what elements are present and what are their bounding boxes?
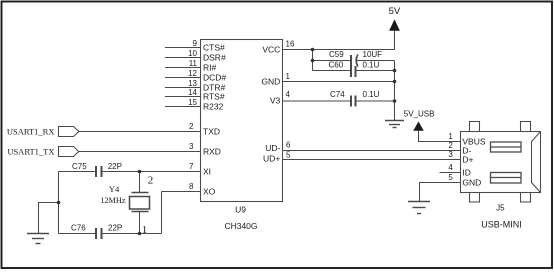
junction gnd rail pin1 xyxy=(393,80,397,84)
power 5V arrow xyxy=(389,19,400,31)
wire USART1_TX to RXD pin 3 xyxy=(79,151,201,153)
wire UD- pin 6 to USB D- xyxy=(283,150,461,152)
capacitor C60 plates xyxy=(350,66,352,77)
wire VCC pin 16 xyxy=(283,49,395,51)
svg-text:14: 14 xyxy=(188,88,197,97)
svg-text:ID: ID xyxy=(462,168,471,178)
svg-text:2: 2 xyxy=(148,175,154,187)
svg-text:12MHz: 12MHz xyxy=(100,196,126,205)
tag USART1_RX flag xyxy=(59,127,79,137)
svg-text:R232: R232 xyxy=(203,102,224,112)
ground symbol left xyxy=(27,233,49,235)
svg-text:13: 13 xyxy=(188,79,197,88)
node XI / C75 row wire xyxy=(59,171,96,173)
svg-text:VCC: VCC xyxy=(262,45,280,55)
svg-text:4: 4 xyxy=(448,163,453,172)
connector tab bottom-left xyxy=(470,193,480,203)
svg-text:10UF: 10UF xyxy=(363,50,383,59)
wire GND pin 5 xyxy=(420,183,461,202)
svg-text:UD-: UD- xyxy=(265,143,280,153)
wire VBUS from 5V_USB xyxy=(419,131,461,142)
junction vcc rail top xyxy=(311,48,315,52)
crystal Y4 bottom electrode xyxy=(132,211,149,213)
wire pin 10 stub xyxy=(165,57,201,59)
wire USART1_RX to TXD pin 2 xyxy=(79,131,201,133)
svg-text:DCD#: DCD# xyxy=(203,73,226,83)
svg-text:GND: GND xyxy=(261,77,280,87)
wire pin 15 stub xyxy=(165,106,201,108)
svg-text:2: 2 xyxy=(189,122,194,131)
wire V3 pin 4 to C74 xyxy=(283,100,351,102)
svg-text:TXD: TXD xyxy=(203,127,220,137)
wire XO vertical xyxy=(161,192,163,234)
svg-text:7: 7 xyxy=(189,162,194,171)
svg-text:11: 11 xyxy=(189,59,198,68)
svg-text:D+: D+ xyxy=(462,155,473,165)
svg-text:5: 5 xyxy=(448,173,453,182)
svg-text:C75: C75 xyxy=(72,162,87,171)
capacitor C59 plates (polarized, curved) xyxy=(350,55,352,66)
svg-text:Y4: Y4 xyxy=(109,184,120,194)
svg-text:5: 5 xyxy=(286,151,291,160)
svg-text:22P: 22P xyxy=(108,162,122,171)
svg-text:C60: C60 xyxy=(329,60,344,69)
svg-text:V3: V3 xyxy=(270,96,281,106)
svg-text:CTS#: CTS# xyxy=(203,43,225,53)
junction crystal bottom xyxy=(138,232,142,236)
svg-text:USB-MINI: USB-MINI xyxy=(481,220,522,230)
ground symbol usb xyxy=(408,201,430,203)
svg-text:9: 9 xyxy=(193,39,198,48)
IC U9 CH340G body xyxy=(201,40,283,202)
crystal Y4 bottom lead xyxy=(139,212,141,234)
svg-text:5V: 5V xyxy=(389,6,401,17)
svg-text:3: 3 xyxy=(448,150,453,159)
svg-text:15: 15 xyxy=(188,98,197,107)
svg-text:UD+: UD+ xyxy=(263,153,280,163)
connector bevel xyxy=(532,132,541,193)
svg-text:22P: 22P xyxy=(108,223,122,232)
svg-text:C76: C76 xyxy=(71,223,86,232)
wire UD+ pin 5 to USB D+ xyxy=(283,159,461,161)
node C59 row xyxy=(313,60,351,62)
svg-text:5V_USB: 5V_USB xyxy=(404,109,435,118)
junction gnd rail C74 xyxy=(393,99,397,103)
tag USART1_TX flag xyxy=(59,147,79,157)
wire pin 12 stub xyxy=(165,77,201,79)
wire ground branch xyxy=(39,203,59,234)
svg-text:1: 1 xyxy=(286,72,291,81)
capacitor C74 plates xyxy=(350,96,352,107)
svg-text:J5: J5 xyxy=(496,204,505,213)
svg-text:0.1U: 0.1U xyxy=(363,60,380,69)
svg-text:RI#: RI# xyxy=(203,63,217,73)
connector slot top xyxy=(491,142,522,152)
svg-text:DSR#: DSR# xyxy=(203,53,226,63)
connector J5 usb-mini body xyxy=(461,132,541,193)
crystal Y4 top lead xyxy=(139,172,141,193)
wire pin 9 stub xyxy=(165,47,201,49)
svg-text:1: 1 xyxy=(142,224,148,236)
wire pin 13 stub xyxy=(165,87,201,89)
wire XO pin 8 xyxy=(162,191,201,193)
connector tab top-left xyxy=(470,122,480,132)
junction crystal top xyxy=(138,170,142,174)
wire ID pin 4 stub xyxy=(440,172,461,174)
wire 5V vertical xyxy=(394,31,396,50)
svg-text:XI: XI xyxy=(203,167,211,177)
wire ground rail right vertical xyxy=(394,61,396,121)
svg-text:GND: GND xyxy=(462,178,481,188)
svg-text:USART1_RX: USART1_RX xyxy=(7,126,55,136)
crystal Y4 body xyxy=(130,197,150,210)
connector slot bottom xyxy=(491,173,522,184)
svg-text:16: 16 xyxy=(286,39,295,48)
svg-text:8: 8 xyxy=(189,182,194,191)
svg-text:2: 2 xyxy=(448,141,453,150)
node C60 row xyxy=(313,70,351,72)
svg-text:3: 3 xyxy=(189,142,194,151)
svg-text:C59: C59 xyxy=(329,50,344,59)
svg-text:6: 6 xyxy=(286,140,291,149)
connector tab top-right xyxy=(521,122,531,132)
svg-text:CH340G: CH340G xyxy=(224,221,257,231)
svg-text:RXD: RXD xyxy=(203,147,221,157)
svg-text:XO: XO xyxy=(203,187,216,197)
node C76 row wire xyxy=(59,233,96,235)
svg-text:C74: C74 xyxy=(330,90,345,99)
svg-text:USART1_TX: USART1_TX xyxy=(7,146,54,156)
svg-text:0.1U: 0.1U xyxy=(363,90,380,99)
svg-text:10: 10 xyxy=(188,49,197,58)
wire cap rail left vertical xyxy=(312,50,314,71)
svg-text:12: 12 xyxy=(188,69,197,78)
svg-text:4: 4 xyxy=(286,90,291,99)
wire pin 11 stub xyxy=(165,67,201,69)
capacitor C75 plates xyxy=(95,166,97,177)
svg-text:RTS#: RTS# xyxy=(203,92,225,102)
crystal Y4 top electrode xyxy=(132,192,149,194)
wire pin 14 stub xyxy=(165,96,201,98)
connector tab bottom-right xyxy=(521,193,531,203)
svg-text:1: 1 xyxy=(448,132,453,141)
wire left rail vertical xyxy=(58,172,60,234)
capacitor C76 plates xyxy=(95,228,97,239)
wire GND pin 1 xyxy=(283,81,395,83)
power 5V_USB arrow xyxy=(413,122,424,131)
junction left rail gnd xyxy=(57,201,61,205)
ground symbol top-right xyxy=(385,120,404,122)
junction vcc rail C59 xyxy=(311,59,315,63)
svg-text:U9: U9 xyxy=(235,205,246,215)
junction gnd rail C60 xyxy=(393,69,397,73)
